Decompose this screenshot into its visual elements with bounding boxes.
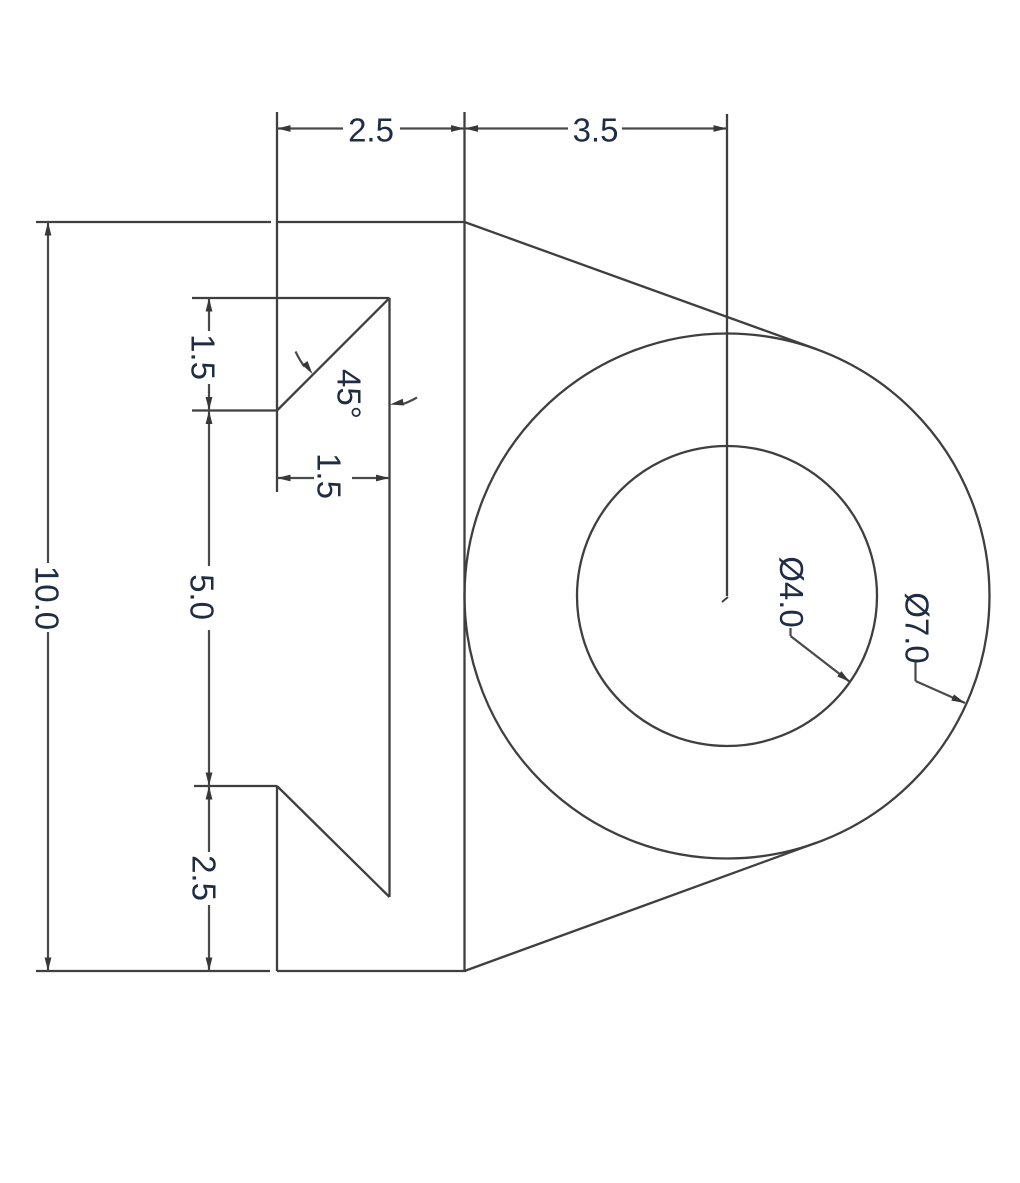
svg-text:Ø7.0: Ø7.0 bbox=[899, 592, 936, 664]
svg-text:5.0: 5.0 bbox=[184, 574, 221, 620]
svg-text:10.0: 10.0 bbox=[29, 566, 66, 630]
svg-text:2.5: 2.5 bbox=[186, 855, 223, 901]
svg-text:Ø4.0: Ø4.0 bbox=[773, 556, 810, 628]
svg-text:1.5: 1.5 bbox=[185, 334, 222, 380]
svg-text:3.5: 3.5 bbox=[573, 112, 619, 149]
svg-text:2.5: 2.5 bbox=[348, 112, 394, 149]
svg-text:1.5: 1.5 bbox=[311, 453, 348, 499]
svg-text:45°: 45° bbox=[331, 369, 368, 419]
